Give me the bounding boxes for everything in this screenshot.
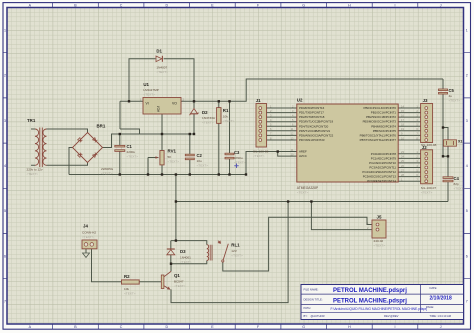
svg-text:PD2/INT0/PCINT18: PD2/INT0/PCINT18: [299, 115, 325, 119]
svg-text:SIL-100-07: SIL-100-07: [421, 186, 437, 190]
svg-text:PD5/T1/OC0B/PCINT21: PD5/T1/OC0B/PCINT21: [299, 129, 331, 133]
svg-text:PD4/T0/XCK/PCINT20: PD4/T0/XCK/PCINT20: [299, 124, 329, 128]
svg-text:G: G: [302, 325, 305, 329]
svg-text:PC2/ADC2/PCINT10: PC2/ADC2/PCINT10: [369, 161, 396, 165]
svg-text:BR1: BR1: [97, 124, 106, 129]
svg-text:12V: 12V: [231, 249, 237, 253]
svg-text:D1: D1: [156, 49, 162, 54]
svg-text:240-02: 240-02: [374, 239, 384, 243]
svg-text:J5: J5: [377, 215, 382, 220]
svg-text:VI: VI: [146, 101, 149, 105]
svg-text:<TEXT>: <TEXT>: [202, 121, 214, 125]
svg-text:2/10/2018: 2/10/2018: [430, 296, 452, 302]
svg-text:PC5/ADC5/SCL/PCINT13: PC5/ADC5/SCL/PCINT13: [363, 175, 397, 179]
svg-text:PETROL MACHINE.pdsprj: PETROL MACHINE.pdsprj: [333, 298, 407, 304]
svg-text:C1: C1: [127, 144, 133, 149]
svg-text:PD1/TXD/PCINT17: PD1/TXD/PCINT17: [299, 111, 324, 115]
svg-text:PC3/ADC3/PCINT11: PC3/ADC3/PCINT11: [369, 166, 396, 170]
svg-text:U2: U2: [297, 97, 303, 102]
svg-text:X1: X1: [458, 140, 462, 144]
svg-text:3: 3: [466, 119, 468, 123]
svg-text:RL1: RL1: [231, 243, 240, 248]
svg-text:10u: 10u: [197, 159, 202, 163]
svg-text:<TEXT>: <TEXT>: [156, 70, 168, 74]
svg-text:J: J: [440, 325, 442, 329]
svg-text:PB0/ICP1/CLKO/PCINT0: PB0/ICP1/CLKO/PCINT0: [364, 106, 397, 110]
svg-text:<TEXT>: <TEXT>: [82, 235, 94, 239]
svg-text:PC1/ADC1/PCINT9: PC1/ADC1/PCINT9: [371, 156, 397, 160]
svg-text:PATH:: PATH:: [304, 306, 312, 310]
svg-text:<TEXT>: <TEXT>: [143, 93, 155, 97]
svg-text:I: I: [395, 3, 396, 7]
svg-text:1N4007: 1N4007: [156, 66, 167, 70]
svg-text:<TEXT>: <TEXT>: [253, 154, 265, 158]
svg-text:C2: C2: [197, 153, 203, 158]
svg-text:BY:: BY:: [304, 314, 308, 318]
svg-text:1N4733A: 1N4733A: [202, 116, 216, 120]
svg-text:<TEXT>: <TEXT>: [297, 191, 309, 195]
svg-text:J2: J2: [422, 145, 427, 150]
svg-text:D3: D3: [180, 249, 186, 254]
svg-text:<TEXT>: <TEXT>: [449, 99, 461, 103]
svg-text:J: J: [440, 3, 442, 7]
svg-text:D: D: [165, 325, 168, 329]
svg-text:<TEXT>: <TEXT>: [421, 190, 433, 194]
svg-text:<TEXT>: <TEXT>: [124, 292, 136, 296]
svg-text:3: 3: [4, 119, 6, 123]
svg-text:5: 5: [4, 209, 6, 213]
svg-text:PC4/ADC4/SDA/PCINT12: PC4/ADC4/SDA/PCINT12: [362, 170, 396, 174]
svg-text:2: 2: [466, 74, 468, 78]
svg-text:<TEXT>: <TEXT>: [180, 260, 192, 264]
svg-text:2200u: 2200u: [127, 150, 136, 154]
svg-text:ATMEGA328P: ATMEGA328P: [297, 186, 319, 190]
svg-text:<TEXT>: <TEXT>: [197, 164, 209, 168]
svg-text:C: C: [120, 325, 123, 329]
svg-text:C3: C3: [234, 150, 240, 155]
svg-text:4: 4: [4, 164, 6, 168]
svg-text:PETROL MACHINE.pdsprj: PETROL MACHINE.pdsprj: [333, 288, 407, 294]
svg-text:J4: J4: [83, 224, 88, 229]
svg-text:<TEXT>: <TEXT>: [231, 254, 243, 258]
svg-text:FILE NAME:: FILE NAME:: [304, 287, 319, 291]
svg-text:<TEXT>: <TEXT>: [127, 155, 139, 159]
svg-text:4700u: 4700u: [234, 156, 243, 160]
svg-text:@AUTHOR: @AUTHOR: [311, 314, 325, 318]
svg-text:VO: VO: [172, 101, 177, 105]
svg-text:G: G: [302, 3, 305, 7]
svg-text:6: 6: [4, 254, 6, 258]
svg-text:PC0/ADC0/PCINT8: PC0/ADC0/PCINT8: [371, 152, 397, 156]
svg-text:PD6/AIN0/OC0A/PCINT22: PD6/AIN0/OC0A/PCINT22: [299, 133, 334, 137]
svg-text:REV:@REV: REV:@REV: [384, 314, 399, 318]
svg-text:4u: 4u: [449, 94, 453, 98]
svg-text:<TEXT>: <TEXT>: [374, 244, 386, 248]
svg-text:D2: D2: [202, 110, 208, 115]
svg-text:AREF: AREF: [299, 150, 307, 154]
svg-text:2: 2: [4, 74, 6, 78]
svg-text:DATE:: DATE:: [430, 286, 438, 290]
svg-text:F:\Arduino\LIQUID FILLING MACH: F:\Arduino\LIQUID FILLING MACHINE\PETROL…: [331, 307, 428, 311]
svg-text:PAGE:: PAGE:: [426, 305, 434, 309]
svg-text:J3: J3: [423, 98, 428, 103]
svg-text:PC6/RESET/PCINT14: PC6/RESET/PCINT14: [367, 179, 396, 183]
svg-text:PB4/MISO/PCINT4: PB4/MISO/PCINT4: [371, 124, 396, 128]
svg-text:SIL-100-08: SIL-100-08: [253, 149, 269, 153]
svg-text:AVCC: AVCC: [299, 154, 307, 158]
svg-text:TIME: 1:04:10 AM: TIME: 1:04:10 AM: [430, 314, 452, 318]
svg-text:PB7/TOSC2/XTAL2/PCINT7: PB7/TOSC2/XTAL2/PCINT7: [360, 138, 397, 142]
svg-text:10k: 10k: [223, 115, 228, 119]
svg-text:7: 7: [4, 300, 6, 304]
svg-text:DESIGN TITLE:: DESIGN TITLE:: [304, 297, 323, 301]
svg-text:PB1/OC1A/PCINT1: PB1/OC1A/PCINT1: [371, 111, 397, 115]
svg-text:<TEXT>: <TEXT>: [27, 172, 39, 176]
svg-text:<TEXT>: <TEXT>: [223, 119, 235, 123]
svg-text:5: 5: [466, 209, 468, 213]
svg-text:1: 1: [466, 28, 468, 32]
svg-text:CONN-H2: CONN-H2: [82, 230, 96, 234]
svg-text:R2: R2: [124, 274, 130, 279]
svg-text:RV1: RV1: [168, 149, 177, 154]
svg-text:1N4001: 1N4001: [180, 256, 191, 260]
svg-text:LM1117MP: LM1117MP: [143, 88, 158, 92]
svg-text:I: I: [395, 325, 396, 329]
svg-text:PD3/INT1/OC2B/PCINT19: PD3/INT1/OC2B/PCINT19: [299, 120, 333, 124]
svg-text:PB6/TOSC1/XTAL1/PCINT6: PB6/TOSC1/XTAL1/PCINT6: [360, 133, 397, 137]
svg-text:ADJ: ADJ: [156, 106, 160, 112]
svg-text:PB5/SCK/PCINT5: PB5/SCK/PCINT5: [373, 129, 397, 133]
svg-text:6: 6: [466, 254, 468, 258]
svg-text:U1: U1: [143, 82, 149, 87]
svg-text:2W005G: 2W005G: [101, 167, 114, 171]
svg-text:1: 1: [4, 28, 6, 32]
svg-text:C: C: [120, 3, 123, 7]
svg-text:4: 4: [466, 164, 468, 168]
svg-text:C4: C4: [454, 176, 460, 181]
svg-text:J1: J1: [256, 98, 261, 103]
svg-text:D: D: [165, 3, 168, 7]
svg-text:H: H: [348, 325, 351, 329]
svg-text:PD0/RXD/PCINT16: PD0/RXD/PCINT16: [299, 106, 325, 110]
svg-text:<TEXT>: <TEXT>: [174, 284, 186, 288]
svg-text:<TEXT>: <TEXT>: [454, 187, 466, 191]
svg-text:<TEXT>: <TEXT>: [234, 161, 246, 165]
svg-text:10k: 10k: [124, 287, 129, 291]
svg-text:Q1: Q1: [174, 273, 180, 278]
svg-text:220v to 12v: 220v to 12v: [27, 168, 43, 172]
svg-text:PB3/MOSI/OC2A/PCINT3: PB3/MOSI/OC2A/PCINT3: [363, 120, 397, 124]
svg-text:BC547: BC547: [174, 280, 184, 284]
svg-text:C5: C5: [449, 88, 455, 93]
svg-text:H: H: [348, 3, 351, 7]
svg-text:R1: R1: [223, 108, 229, 113]
svg-text:7: 7: [466, 300, 468, 304]
svg-text:TR1: TR1: [27, 118, 36, 123]
svg-text:PD7/AIN1/PCINT23: PD7/AIN1/PCINT23: [299, 138, 325, 142]
svg-text:PB2/SS/OC1B/PCINT2: PB2/SS/OC1B/PCINT2: [366, 115, 396, 119]
svg-text:<TEXT>: <TEXT>: [101, 172, 113, 176]
svg-text:82p: 82p: [454, 182, 459, 186]
svg-text:<TEXT>: <TEXT>: [168, 160, 180, 164]
